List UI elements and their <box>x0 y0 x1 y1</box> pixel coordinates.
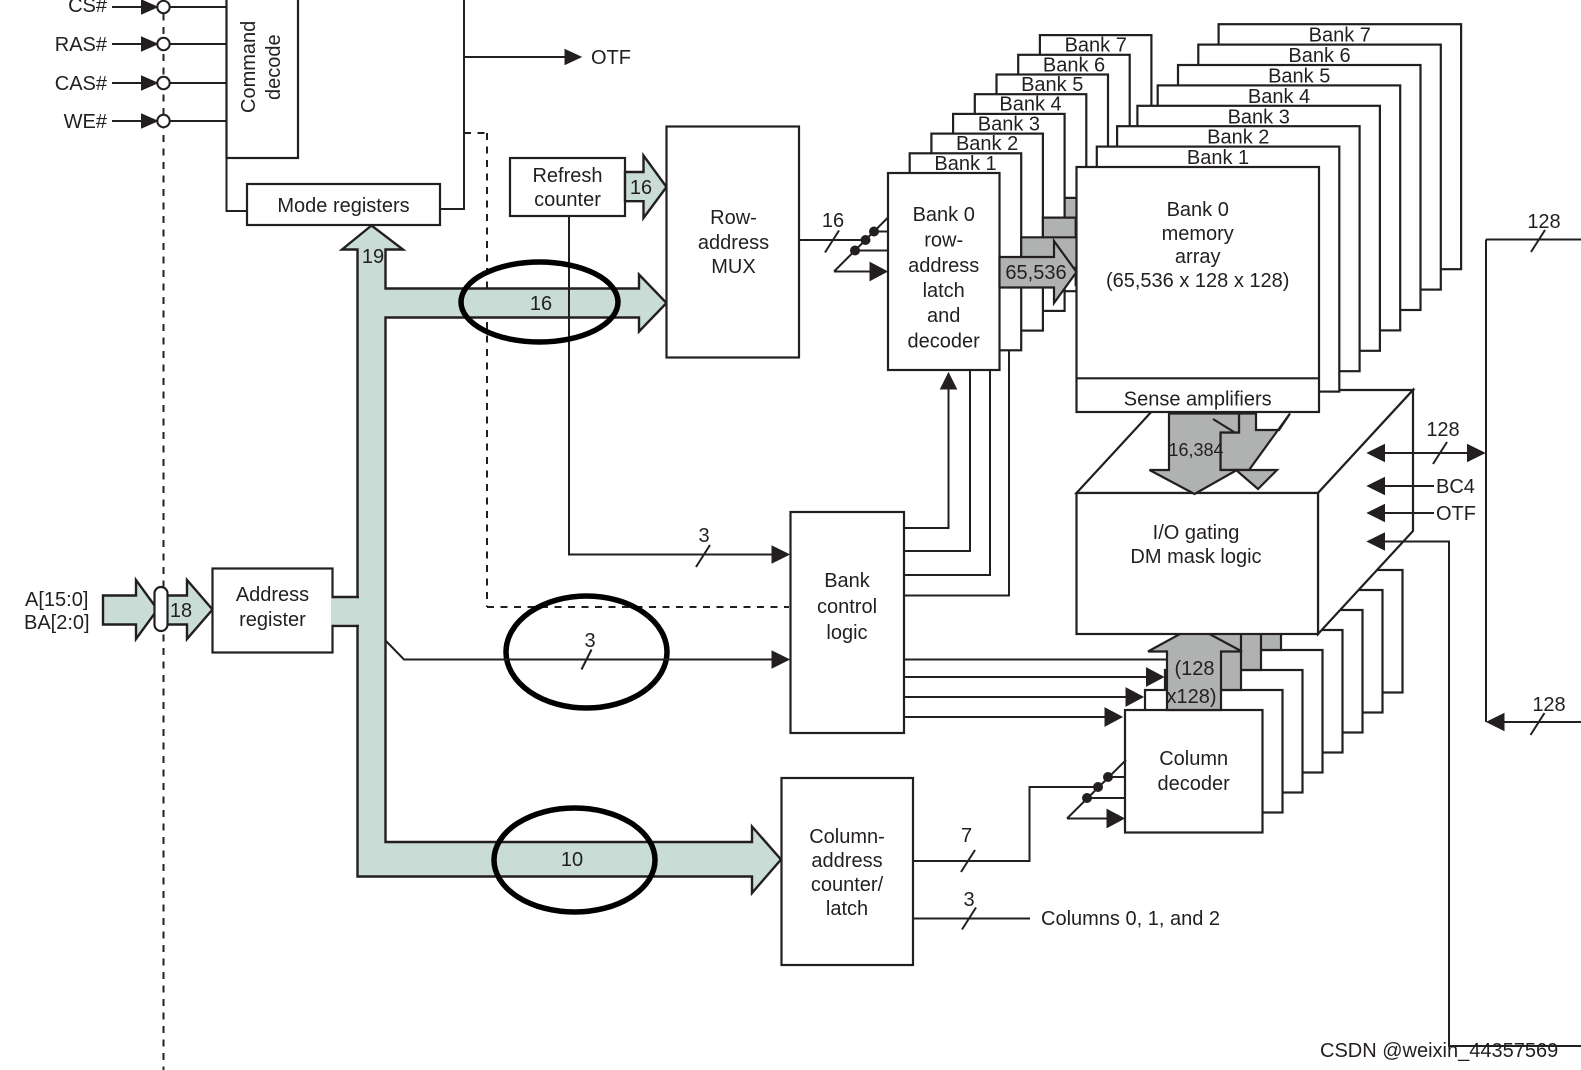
column decoder box (bank 0) <box>1125 710 1263 833</box>
svg-text:Bank 5: Bank 5 <box>1268 66 1330 88</box>
svg-text:BC4: BC4 <box>1436 476 1475 498</box>
right 128 data bus wire (top) <box>1486 211 1581 722</box>
bank 7 65,536 gray arrow (hidden layer) <box>1151 103 1228 165</box>
svg-text:row-: row- <box>924 230 963 252</box>
svg-text:128: 128 <box>1532 694 1565 716</box>
control logic outer box right edge <box>463 0 465 210</box>
bus width label 19 <box>362 246 384 268</box>
svg-text:Bank 1: Bank 1 <box>1187 147 1249 169</box>
svg-text:Column: Column <box>1159 748 1228 770</box>
svg-text:logic: logic <box>826 622 867 644</box>
column decoder stack layer 6 box <box>1245 590 1383 713</box>
svg-text:memory: memory <box>1162 223 1234 245</box>
column decoder stack layer 6 gray arrow (hidden) <box>1268 506 1362 590</box>
refresh counter 16 arrow into row-address MUX <box>625 156 667 219</box>
svg-text:19: 19 <box>362 246 384 268</box>
svg-text:3: 3 <box>698 525 709 547</box>
bank 5 row-address latch box (stack layer) <box>997 74 1109 272</box>
column decoder stack layer 4 gray arrow (hidden) <box>1228 546 1322 630</box>
svg-text:Sense amplifiers: Sense amplifiers <box>1124 389 1272 411</box>
svg-text:Bank 3: Bank 3 <box>1228 106 1290 128</box>
column decoder stack layer 7 gray arrow (hidden) <box>1288 486 1382 570</box>
bank 4 memory array box (stack layer) <box>1158 85 1401 330</box>
svg-text:3: 3 <box>584 630 595 652</box>
svg-text:16,384: 16,384 <box>1168 440 1223 460</box>
svg-text:Command: Command <box>238 21 260 113</box>
svg-text:Bank 7: Bank 7 <box>1309 25 1371 47</box>
column decoder stack layer 5 gray arrow (hidden) <box>1248 526 1342 610</box>
svg-text:Bank 4: Bank 4 <box>999 94 1061 116</box>
3 wire from address bus to bank control logic <box>386 630 789 670</box>
svg-text:Bank 7: Bank 7 <box>1065 35 1127 57</box>
svg-text:Mode registers: Mode registers <box>277 195 409 217</box>
bank 2 65,536 gray arrow (hidden layer) <box>1043 202 1120 264</box>
svg-text:latch: latch <box>826 898 868 920</box>
svg-text:address: address <box>811 850 882 872</box>
svg-text:65,536: 65,536 <box>1005 262 1066 284</box>
bank 2 row-address latch box (stack layer) <box>931 133 1043 331</box>
OTF output wire and arrow <box>464 47 631 69</box>
highlight ellipse around 16 branch <box>461 262 618 342</box>
svg-text:Bank 0: Bank 0 <box>913 204 975 226</box>
(128 x128) gray arrow from column decoder to I/O gating <box>1148 626 1242 710</box>
stub from address register to bus <box>332 597 360 626</box>
svg-text:control: control <box>817 596 877 618</box>
svg-text:MUX: MUX <box>711 256 755 278</box>
highlight ellipse around 10 branch <box>494 808 655 912</box>
svg-text:16: 16 <box>630 177 652 199</box>
svg-text:x128): x128) <box>1166 686 1216 708</box>
svg-text:Columns 0, 1, and 2: Columns 0, 1, and 2 <box>1041 908 1220 930</box>
dashed chip-boundary line (left, through input buffers) <box>163 0 165 1070</box>
svg-text:BA[2:0]: BA[2:0] <box>24 612 90 634</box>
svg-text:and: and <box>927 305 960 327</box>
wire mode-registers to control box right edge <box>440 208 464 210</box>
refresh counter box <box>510 158 625 216</box>
svg-text:Bank 2: Bank 2 <box>1207 127 1269 149</box>
bank 1 65,536 gray arrow (hidden layer) <box>1021 221 1098 283</box>
bank 1 memory array box (stack layer) <box>1097 147 1340 392</box>
column decoder stack layer 1 gray arrow (hidden) <box>1168 606 1262 690</box>
write data input arrow and wire from DQ <box>1368 533 1581 1046</box>
128 bidirectional data bus at I/O gating <box>1368 419 1485 464</box>
bank 0 memory array box with sense amplifiers <box>1077 167 1320 412</box>
bank control logic box <box>791 512 905 733</box>
svg-text:(128: (128 <box>1174 658 1214 680</box>
svg-text:register: register <box>239 609 306 631</box>
column decoder stack layer 3 gray arrow (hidden) <box>1208 566 1302 650</box>
3 wire Columns 0, 1, and 2 <box>913 889 1220 930</box>
bank control wire to column decoder layer 2 <box>904 688 1143 706</box>
65,536 bus arrow from latch to bank 0 memory array <box>1000 241 1077 303</box>
svg-text:A[15:0]: A[15:0] <box>25 589 88 611</box>
bank 4 65,536 gray arrow (hidden layer) <box>1086 162 1163 224</box>
svg-text:address: address <box>908 255 979 277</box>
svg-text:Bank 6: Bank 6 <box>1043 54 1105 76</box>
bank 3 memory array box (stack layer) <box>1137 106 1380 351</box>
bank 6 65,536 gray arrow (hidden layer) <box>1130 123 1207 185</box>
svg-text:CSDN @weixin_44357569: CSDN @weixin_44357569 <box>1320 1040 1558 1062</box>
svg-text:decoder: decoder <box>908 331 981 353</box>
OTF input arrow <box>1368 503 1477 525</box>
bank 1 row-address latch box (stack layer) <box>910 153 1022 350</box>
bank control wire to column decoder layer 3 <box>904 668 1164 686</box>
bus width label 10 (column address branch) <box>561 849 583 871</box>
svg-text:decode: decode <box>263 34 285 100</box>
column-address counter/latch box <box>782 778 914 965</box>
I/O gating DM mask logic 3D box <box>1077 390 1414 634</box>
wire refresh-counter to bank control logic (3) <box>569 216 789 567</box>
bank 4 row-address latch box (stack layer) <box>975 94 1087 292</box>
address bus (19-wide) with branch arrows to mode registers, row-address MUX and column-address counter <box>342 226 781 894</box>
bank control wire to bank 3 latch <box>904 351 1009 596</box>
svg-text:array: array <box>1175 246 1221 268</box>
svg-text:Bank 4: Bank 4 <box>1248 86 1310 108</box>
svg-text:decoder: decoder <box>1158 773 1231 795</box>
svg-text:7: 7 <box>961 825 972 847</box>
bank 0 row-address latch and decoder box <box>888 173 1000 370</box>
boundary pill on address bus <box>155 587 168 631</box>
bank 3 row-address latch box (stack layer) <box>953 113 1065 311</box>
svg-text:Bank 3: Bank 3 <box>978 113 1040 135</box>
svg-text:10: 10 <box>561 849 583 871</box>
svg-text:Column-: Column- <box>809 826 885 848</box>
svg-text:RAS#: RAS# <box>55 34 108 56</box>
input RAS# with buffer <box>55 34 227 56</box>
input WE# with buffer <box>64 111 227 133</box>
column decoder stack layer 1 box <box>1145 690 1283 813</box>
bank 7 row-address latch box (stack layer) <box>1040 35 1152 233</box>
svg-text:128: 128 <box>1426 419 1459 441</box>
input CS# with buffer <box>68 0 226 17</box>
dashed control wire from control logic to bank control logic <box>464 133 789 607</box>
column decoder stack layer 7 box <box>1265 570 1403 693</box>
svg-text:Row-: Row- <box>710 207 757 229</box>
watermark text <box>1320 1040 1558 1062</box>
column decoder stack layer 4 box <box>1205 630 1343 753</box>
bank 3 65,536 gray arrow (hidden layer) <box>1065 182 1142 244</box>
svg-text:counter: counter <box>534 189 601 211</box>
bus width label 18 <box>170 600 192 622</box>
svg-text:address: address <box>698 232 769 254</box>
svg-text:Bank 6: Bank 6 <box>1288 45 1350 67</box>
input bus A[15:0] BA[2:0] arrow into address register <box>24 580 213 639</box>
svg-text:18: 18 <box>170 600 192 622</box>
column decoder stack layer 2 gray arrow (hidden) <box>1188 586 1282 670</box>
highlight ellipse around 3 wire <box>506 596 667 708</box>
svg-text:latch: latch <box>923 280 965 302</box>
row-address 16 wire from MUX with fanout to bank latches <box>799 210 888 281</box>
16,384 up arrow stack (sense amps to I/O gating, hidden layers) <box>1221 414 1291 490</box>
bank control wire to column decoder layer 4 <box>904 659 1166 661</box>
address register box <box>213 569 333 653</box>
svg-text:Bank 0: Bank 0 <box>1167 199 1229 221</box>
bank 2 memory array box (stack layer) <box>1117 126 1360 371</box>
svg-text:CAS#: CAS# <box>55 73 108 95</box>
bank 6 row-address latch box (stack layer) <box>1018 54 1129 252</box>
column decoder stack layer 2 box <box>1165 670 1303 793</box>
svg-text:16: 16 <box>530 293 552 315</box>
16,384 down arrow (sense amps to I/O gating) <box>1150 414 1240 495</box>
svg-text:OTF: OTF <box>591 47 631 69</box>
bank 5 memory array box (stack layer) <box>1178 65 1421 310</box>
svg-text:Bank: Bank <box>824 570 871 592</box>
column decoder stack layer 5 box <box>1225 610 1363 733</box>
bus width label 16 (row address branch) <box>530 293 552 315</box>
svg-text:OTF: OTF <box>1436 503 1476 525</box>
right 128 data bus arrow (bottom) <box>1487 694 1581 735</box>
svg-text:CS#: CS# <box>68 0 108 17</box>
BC4 input arrow <box>1368 476 1475 498</box>
svg-text:counter/: counter/ <box>811 874 884 896</box>
svg-text:Bank 2: Bank 2 <box>956 133 1018 155</box>
bank control wire to bank 2 latch <box>904 369 990 575</box>
svg-text:128: 128 <box>1527 211 1560 233</box>
mode registers box <box>247 184 440 225</box>
bank 5 65,536 gray arrow (hidden layer) <box>1108 143 1185 205</box>
bank 6 memory array box (stack layer) <box>1198 45 1441 290</box>
column decoder stack layer 3 box <box>1185 650 1323 773</box>
wire command-decode to mode-registers (left) <box>227 158 248 211</box>
bank control wire to bank 1 latch <box>904 369 970 551</box>
svg-text:WE#: WE# <box>64 111 108 133</box>
input CAS# with buffer <box>55 73 227 95</box>
svg-text:Bank 5: Bank 5 <box>1021 74 1083 96</box>
svg-text:3: 3 <box>963 889 974 911</box>
svg-text:I/O gating: I/O gating <box>1153 522 1240 544</box>
bank control wire to column decoder bank 0 <box>904 708 1122 726</box>
command decode box <box>227 0 299 158</box>
bank 7 memory array box (stack layer) <box>1219 24 1462 269</box>
svg-text:Address: Address <box>236 584 309 606</box>
svg-text:(65,536 x 128 x 128): (65,536 x 128 x 128) <box>1106 270 1289 292</box>
7 wire from column-address counter to column decoder fanout <box>913 760 1126 872</box>
svg-text:16: 16 <box>822 210 844 232</box>
svg-text:Bank 1: Bank 1 <box>934 153 996 175</box>
row-address MUX box <box>667 127 800 358</box>
svg-text:DM mask logic: DM mask logic <box>1130 546 1261 568</box>
svg-text:Refresh: Refresh <box>532 165 602 187</box>
bank control wire to bank 0 latch (arrow up) <box>904 373 957 528</box>
